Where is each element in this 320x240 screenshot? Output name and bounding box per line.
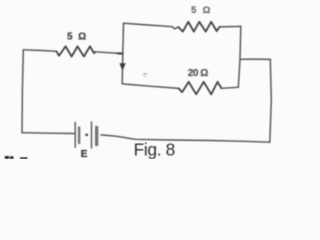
- current arrow (down) on left branch: [120, 64, 125, 70]
- stray cut-off mark bottom-left 3: [20, 157, 28, 159]
- wire outer left vertical: [22, 50, 23, 133]
- wire bottom left segment (battery to left corner): [22, 132, 74, 135]
- wire parallel-box left vertical: [122, 23, 123, 84]
- wire parallel-box right vertical: [238, 26, 241, 87]
- stray cut-off mark bottom-left 1: [5, 156, 9, 159]
- stray mark left of 20-ohm label: [144, 73, 147, 75]
- svg-text:5 Ω: 5 Ω: [67, 32, 88, 43]
- wire outer right vertical: [270, 59, 272, 142]
- wire top branch left segment: [124, 23, 179, 29]
- battery E: middle dash: [85, 134, 88, 136]
- battery E: cell 1 short thick plate: [78, 127, 80, 145]
- resistor R3 20-ohm zigzag (bottom branch): [179, 82, 222, 94]
- battery E: cell 2 short thick plate: [95, 126, 98, 146]
- battery E: cell 2 long plate: [91, 122, 93, 148]
- node junction tick: [118, 52, 123, 55]
- resistor R2 5-ohm zigzag (top branch): [178, 22, 219, 32]
- battery E: cell 1 long plate: [74, 123, 76, 148]
- svg-text:E: E: [81, 149, 88, 159]
- stray faint dot below dash: [144, 76, 146, 78]
- wire middle tap to outer right: [240, 58, 270, 60]
- wire R1 to junction node: [96, 52, 123, 54]
- resistor R1 5-ohm zigzag: [56, 46, 95, 56]
- wire top-left horizontal (corner to R1): [23, 50, 56, 52]
- svg-text:5 Ω: 5 Ω: [191, 5, 212, 16]
- stray cut-off mark bottom-left 2: [10, 156, 14, 159]
- svg-text:20 Ω: 20 Ω: [188, 68, 208, 79]
- wire bottom right segment (to battery): [101, 135, 270, 142]
- svg-text:Fig. 8: Fig. 8: [134, 139, 175, 159]
- wire top branch right segment: [220, 25, 241, 28]
- wire bottom branch left segment: [122, 84, 179, 89]
- wire bottom branch right segment: [222, 87, 239, 88]
